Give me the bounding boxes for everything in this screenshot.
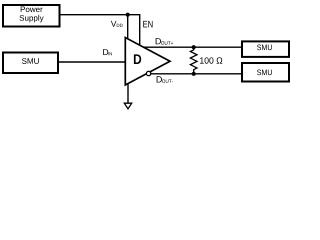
resistor R 100 ohm	[190, 47, 197, 74]
SMU box right top	[242, 41, 289, 57]
wire DOUT-	[151, 73, 242, 75]
SMU box right bottom	[242, 63, 289, 82]
label DOUT-	[157, 76, 173, 83]
driver U1 triangle	[125, 38, 170, 86]
label 100 ohm	[200, 57, 222, 63]
wire DIN	[59, 61, 125, 63]
node VDD junction dot	[126, 13, 130, 17]
label EN	[143, 21, 152, 28]
node junction dot DOUT- / resistor bottom	[192, 72, 196, 76]
wire power supply to EN (turns down into driver)	[61, 15, 140, 46]
driver label D	[134, 54, 141, 64]
SMU box left	[3, 53, 58, 74]
label VDD	[111, 21, 123, 27]
wire DOUT+	[144, 46, 243, 48]
inversion bubble DOUT-	[146, 71, 150, 75]
node junction dot DOUT+ / resistor top	[192, 45, 196, 49]
label DIN	[103, 49, 112, 55]
wire ground	[127, 84, 129, 104]
wire VDD vertical	[127, 15, 129, 39]
ground symbol	[124, 103, 131, 109]
label DOUT+	[156, 38, 173, 45]
power supply box	[3, 5, 60, 27]
